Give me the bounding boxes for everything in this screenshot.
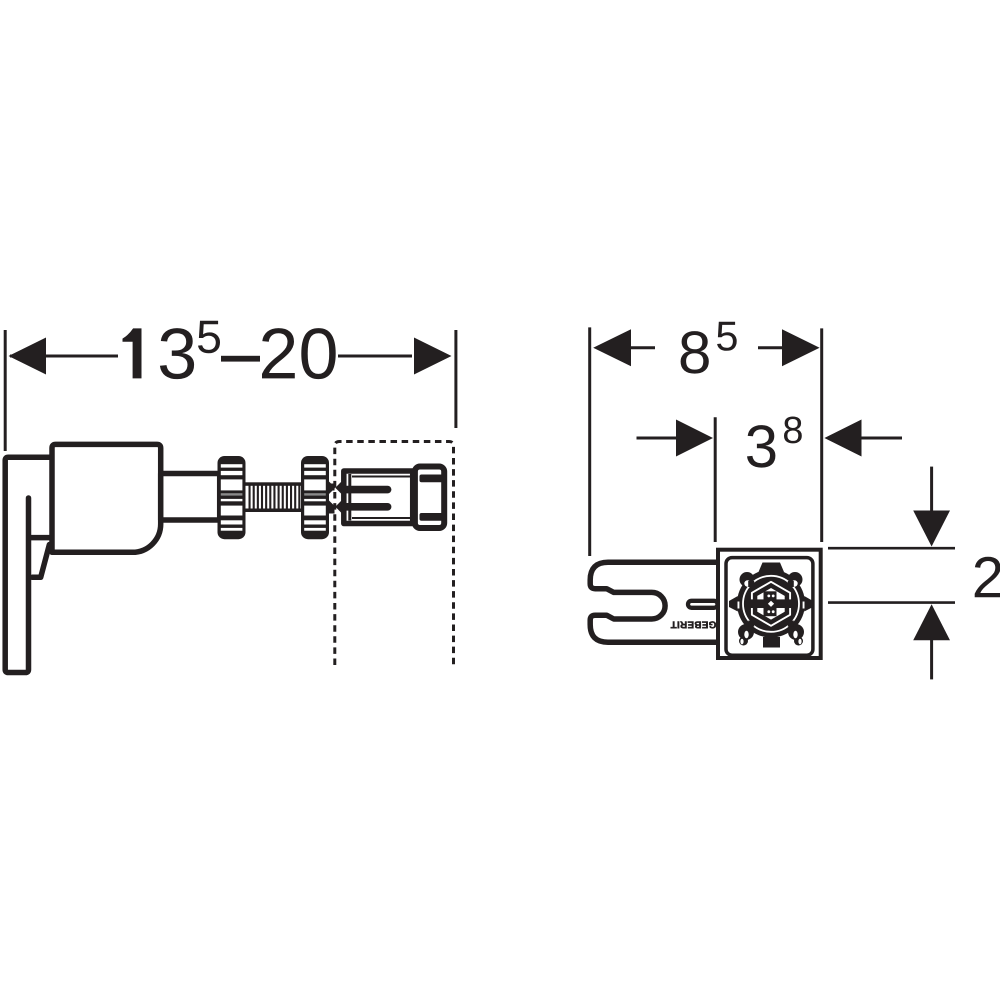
knurled nut 2: [301, 456, 335, 539]
knob ring: [743, 576, 799, 632]
digit 2 right: [975, 557, 1000, 598]
fork (top view): [590, 562, 716, 642]
knob side lugs: [729, 596, 738, 612]
knob hexagon black margin: [754, 585, 787, 623]
knob hexagon white interior: [757, 588, 784, 620]
snap connector body: [344, 471, 413, 524]
3.8 dim: [637, 437, 678, 440]
ring breaks: [748, 581, 794, 627]
digit 3: [160, 328, 194, 379]
knob disc: [737, 570, 805, 638]
GEBERIT text (rotated): [671, 621, 716, 628]
digit 3 right: [747, 425, 775, 468]
ext line mid (3.8): [714, 417, 717, 542]
digit 1: [123, 328, 142, 378]
knob cross bar: [747, 591, 795, 616]
neck: [161, 474, 220, 521]
RIGHT FIGURE: [590, 327, 955, 679]
knob lower lugs: [738, 624, 754, 640]
dashed outline box: [335, 442, 454, 666]
knob center details: [767, 595, 774, 614]
left extension line: [4, 330, 7, 451]
superscript 5: [198, 321, 220, 354]
blade pin: [688, 601, 718, 608]
body: [52, 444, 161, 552]
superscript 8 right: [784, 417, 802, 444]
superscript 5 right: [717, 322, 737, 351]
dim text right: [681, 322, 1000, 598]
threaded rod: [244, 482, 302, 512]
square flange: [718, 550, 821, 658]
digits 20: [262, 328, 336, 379]
digit 8: [681, 331, 709, 374]
2 dim: [930, 467, 933, 512]
wall plate: [5, 457, 50, 672]
right arrowhead: [414, 338, 452, 375]
left arrowhead: [9, 338, 47, 375]
hook horizontal line: [29, 535, 51, 541]
dimension text 13 5 - 20: [123, 321, 336, 379]
dash: [221, 356, 260, 362]
ext line right (8.5/3.8): [820, 328, 823, 542]
right extension line: [454, 330, 457, 428]
ext line left (8.5): [588, 327, 591, 556]
knob hexagon white outline: [752, 582, 790, 626]
side tabs: [329, 484, 335, 491]
knurled nut 1: [218, 456, 246, 539]
knob lug holes: [738, 580, 805, 644]
dimension line left segment: [10, 355, 118, 358]
connector prongs: [341, 486, 391, 511]
knob top lug: [759, 563, 785, 573]
knob bottom tab: [763, 637, 780, 648]
knob: [729, 563, 813, 648]
hook diagonal: [32, 545, 49, 578]
knob diagonal lugs: [740, 572, 755, 587]
8.5 dim: [630, 346, 655, 349]
dimension line right segment: [338, 355, 412, 358]
break X marks: [329, 482, 342, 514]
connector end cap: [415, 467, 444, 529]
